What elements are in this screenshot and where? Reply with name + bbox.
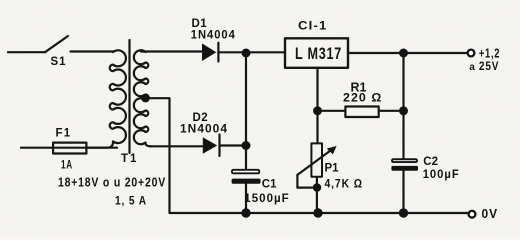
svg-text:1N4004: 1N4004: [191, 30, 236, 42]
svg-text:220 Ω: 220 Ω: [343, 93, 382, 105]
svg-text:25V: 25V: [479, 59, 499, 73]
svg-text:CI-1: CI-1: [298, 21, 328, 33]
svg-text:1A: 1A: [61, 159, 73, 171]
svg-text:S1: S1: [51, 56, 67, 68]
svg-text:1500µF: 1500µF: [244, 193, 289, 205]
svg-text:4,7K Ω: 4,7K Ω: [325, 179, 363, 191]
svg-text:18+18V o u 20+20V: 18+18V o u 20+20V: [58, 174, 166, 189]
svg-text:1, 5 A: 1, 5 A: [115, 195, 147, 207]
svg-text:L M317: L M317: [295, 45, 342, 63]
svg-text:D2: D2: [193, 112, 209, 124]
svg-text:T1: T1: [121, 153, 138, 165]
svg-text:a: a: [469, 62, 476, 73]
svg-text:F1: F1: [56, 128, 72, 140]
svg-text:100µF: 100µF: [423, 169, 460, 181]
svg-text:0V: 0V: [482, 207, 499, 221]
svg-text:D1: D1: [192, 18, 208, 30]
svg-text:C2: C2: [423, 156, 438, 168]
svg-text:C1: C1: [262, 178, 277, 190]
svg-text:P1: P1: [325, 162, 340, 174]
svg-text:1N4004: 1N4004: [180, 124, 228, 136]
